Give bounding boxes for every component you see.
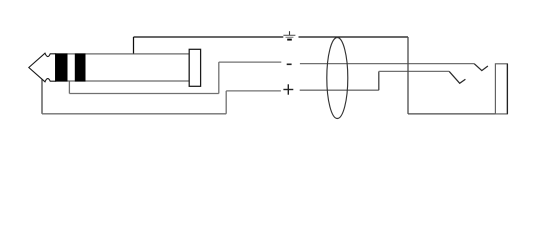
jack lower contact (ring spring) [449,71,465,83]
plug ring band 2 (black) [75,53,86,81]
wire: sleeve/ground top run to ground symbol [134,36,284,38]
wire: tip (+) bottom run [42,113,226,115]
wire: ground after symbol [299,36,409,38]
plug tip [29,53,56,82]
plug body (sleeve shaft) [55,54,189,81]
ground symbol [283,31,295,39]
label minus [287,64,292,66]
wire: ring (-) toward minus label [219,61,281,63]
cable ellipse [327,38,348,119]
wire: tip (+) toward plus label [226,90,281,92]
wire: ground down right side [407,37,409,114]
wire: tip (+) rise to plus level [225,91,227,114]
plug ring band 1 (black) [55,53,67,81]
wire: ring (-) drop from ring gap [68,81,70,94]
wire: ring (-) run under plug [69,93,218,95]
wire: tip (+) step up [378,71,380,90]
wire: sleeve/ground up from shaft [133,37,135,55]
wire: ring (-) after minus label to jack upper contact [300,63,474,65]
wire: tip (+) to jack lower contact [379,70,449,72]
wire: tip (+) after plus label [300,89,379,91]
jack sleeve terminal [495,64,507,114]
wire: ground bottom run to jack sleeve [408,113,507,115]
wire: ring (-) rise to minus level [218,62,220,93]
label plus [283,84,293,94]
jack sleeve right edge [506,64,508,114]
plug barrel [189,49,200,86]
wire: tip (+) drop from plug tip [41,78,43,114]
jack upper contact (tip spring) [474,64,488,71]
